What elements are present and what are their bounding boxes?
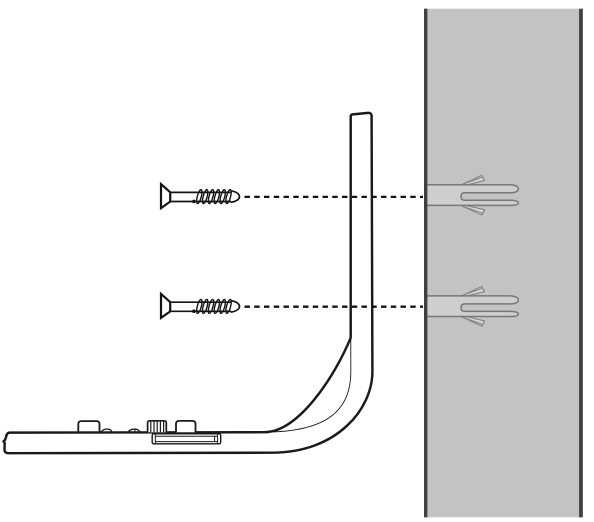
wall plug anchor 1 [425, 175, 518, 215]
rail plate inner lines [155, 434, 217, 444]
wall left border [424, 9, 427, 518]
ribbed block stripes [151, 421, 164, 432]
wall panel [424, 9, 583, 518]
dome 2 tick [134, 429, 136, 431]
wall right border [579, 9, 583, 518]
rail plate outer [152, 434, 221, 444]
small dome 2 [128, 429, 140, 432]
screw 1 with dashed line [161, 184, 423, 208]
ribbed block [148, 421, 167, 432]
screw 2 with dashed line [161, 294, 423, 318]
rounded block [176, 421, 196, 432]
small dome 1 [101, 429, 112, 432]
button bump 1 [78, 421, 99, 432]
wall plug anchor 2 [425, 287, 518, 327]
bracket fillet edge (thin line) [264, 338, 350, 432]
bracket main outline [4, 113, 373, 453]
